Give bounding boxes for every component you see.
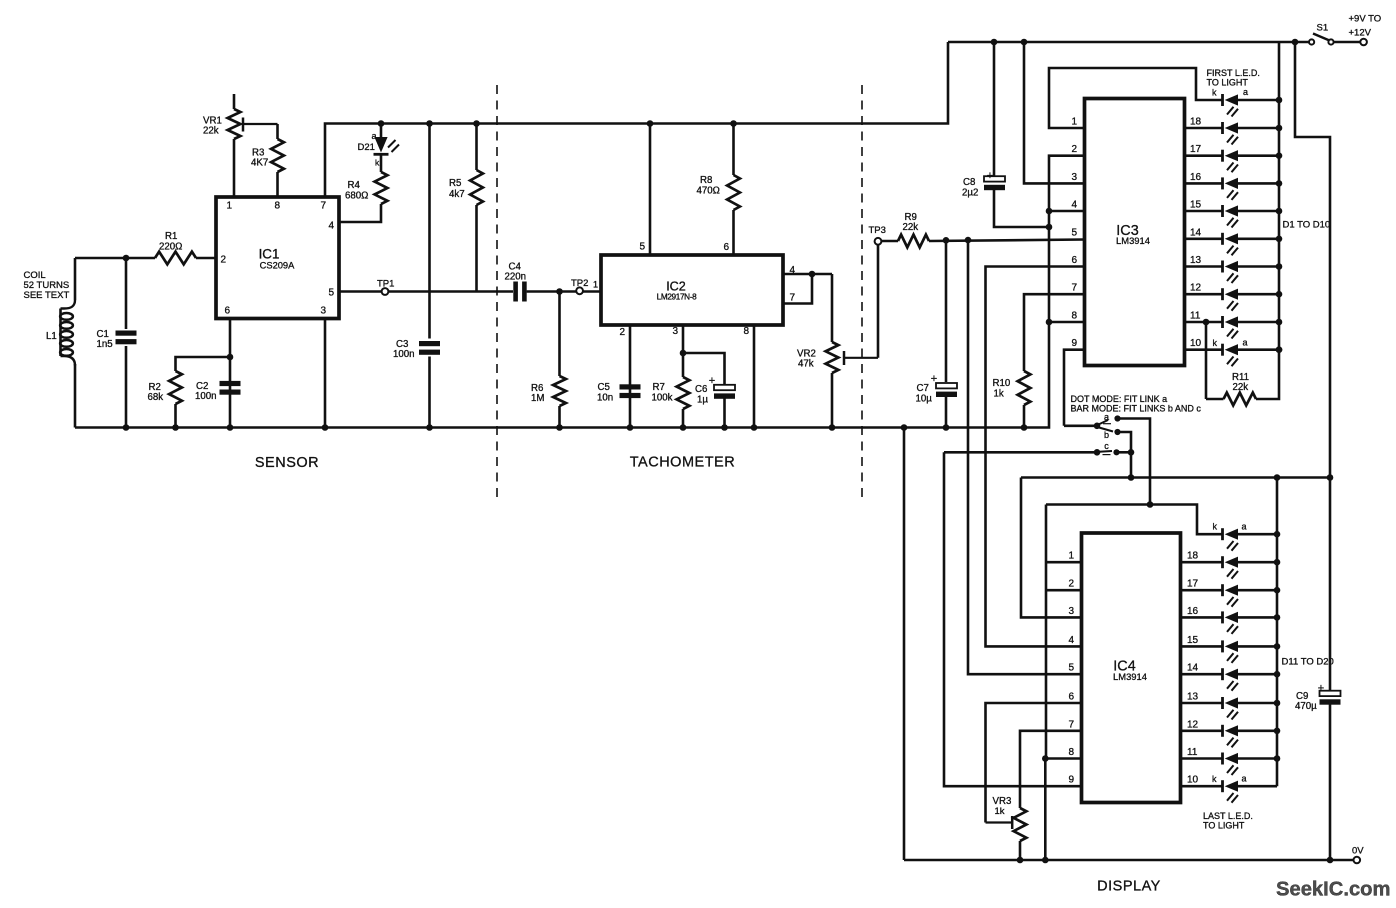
svg-text:10: 10 [1187,775,1199,786]
LED D3 [1185,150,1283,173]
svg-text:10: 10 [1190,338,1202,349]
svg-text:R8: R8 [700,175,712,186]
capacitor C6 1µ (electrolytic) [683,353,735,431]
svg-text:12: 12 [1190,283,1202,294]
svg-text:SEE TEXT: SEE TEXT [24,290,70,301]
svg-text:100k: 100k [652,393,673,404]
terminal 0V [1352,846,1364,864]
svg-text:18: 18 [1190,117,1202,128]
svg-text:1k: 1k [994,389,1004,400]
wire IC1 pin 3 to 0V rail [322,318,329,431]
LED D13 [1181,584,1281,607]
wire IC4 pin 6 to VR3 wiper [986,703,1082,823]
labels k/a for D1 [1212,87,1248,98]
svg-text:R4: R4 [348,180,361,191]
link c [1094,441,1120,456]
svg-text:TP1: TP1 [377,279,394,290]
IC2 pin numbers [619,242,795,339]
svg-text:220n: 220n [505,272,527,283]
svg-text:IC2: IC2 [666,280,686,294]
resistor R11 22k [1203,319,1283,406]
svg-text:1µ: 1µ [697,395,708,406]
svg-text:8: 8 [743,326,749,337]
section divider dashed line (left) [496,85,498,499]
svg-text:SeekIC.com: SeekIC.com [1276,879,1390,901]
wire +V line to IC4 anodes [1021,474,1333,481]
switch S1 [1309,23,1334,45]
svg-text:5: 5 [639,242,645,253]
svg-text:C7: C7 [917,383,929,394]
wire IC4 pin 1 box to first LED [1046,505,1223,535]
capacitor C1 1n5 [97,258,137,431]
capacitor C3 100n [393,124,440,431]
svg-text:3: 3 [672,326,678,337]
IC2 LM2917N-8 box [601,255,783,325]
svg-text:LAST L.E.D.: LAST L.E.D. [1203,811,1253,821]
svg-text:22k: 22k [203,126,219,137]
LED D11 [1223,528,1281,551]
LED D1 [1223,94,1283,117]
test point TP3 [869,225,886,245]
svg-text:+9V TO: +9V TO [1349,14,1382,25]
labels k/a for D10 [1213,338,1248,349]
svg-text:c: c [1104,441,1109,451]
svg-text:1k: 1k [995,806,1005,817]
svg-text:4: 4 [1071,200,1077,211]
svg-text:IC1: IC1 [259,247,280,262]
wire IC2 pin 8 to 0V rail [751,325,758,431]
LED D2 [1185,122,1283,145]
wire +V right-side feed [1295,42,1330,477]
svg-text:CS209A: CS209A [260,260,295,270]
label DISPLAY [1097,879,1161,895]
svg-text:16: 16 [1190,172,1202,183]
svg-text:TO LIGHT: TO LIGHT [1203,821,1245,831]
svg-text:a: a [1243,87,1248,97]
wire link b to +V net [1118,432,1132,452]
label TACHOMETER [630,455,735,471]
svg-text:10n: 10n [597,393,613,404]
svg-text:TACHOMETER: TACHOMETER [630,455,735,471]
LED D8 [1185,288,1283,311]
LED D16 [1181,668,1281,691]
wire link c to IC4 pin 9 [944,449,1134,786]
svg-text:9: 9 [1071,338,1077,349]
LED D7 [1185,261,1283,284]
svg-text:LM3914: LM3914 [1116,235,1150,246]
svg-text:R5: R5 [449,178,461,189]
wire IC3 pin 9 to link a [1064,350,1085,426]
svg-text:0V: 0V [1352,846,1364,857]
label FIRST LED TO LIGHT [1207,68,1260,88]
test point TP1 [377,279,394,295]
svg-text:1: 1 [226,201,232,212]
wire 0V bottom rail [75,426,1097,428]
labels k/a for D11 [1213,522,1247,532]
wire IC4 pin 7 to VR3 [1020,731,1082,808]
wire IC3 pin 1 to first LED (wire box) [1049,68,1223,128]
svg-text:6: 6 [224,306,230,317]
label SENSOR [255,455,319,471]
test point TP2 [571,278,598,294]
svg-text:7: 7 [1071,283,1077,294]
IC3 left pin numbers [1071,117,1077,350]
LED D19 [1181,753,1281,776]
IC4 right pin numbers [1187,551,1199,786]
wire C4 to IC2 pin 1 [560,290,602,293]
wire LED anode rail (D1-D10) [1278,42,1281,350]
resistor R6 1M [531,288,566,431]
svg-text:18: 18 [1187,551,1199,562]
LED D14 [1181,611,1281,634]
svg-text:a: a [1242,522,1247,532]
svg-text:TP3: TP3 [869,225,886,236]
resistor R10 1k [993,294,1085,431]
resistor R8 470Ω [697,124,740,256]
svg-text:7: 7 [790,293,796,304]
svg-text:8: 8 [1068,747,1074,758]
svg-text:a: a [1104,412,1109,422]
wire IC3 pin 6 to IC4 pin 4 [986,267,1085,647]
svg-text:5: 5 [328,288,334,299]
resistor R7 100k [652,325,690,431]
svg-text:11: 11 [1190,311,1201,322]
svg-text:470µ: 470µ [1295,701,1317,712]
svg-text:22k: 22k [1233,382,1249,393]
svg-text:8: 8 [1071,311,1077,322]
svg-text:12: 12 [1187,719,1199,730]
op-amp IC1 CS209A [216,197,339,319]
svg-text:L1: L1 [46,331,57,342]
svg-text:9: 9 [1068,775,1074,786]
label dot/bar mode note [1071,394,1202,414]
svg-text:17: 17 [1190,144,1202,155]
svg-text:+12V: +12V [1349,28,1372,39]
IC3 LM3914 box [1085,99,1185,366]
svg-text:470Ω: 470Ω [697,186,720,197]
svg-text:S1: S1 [1317,23,1329,34]
LED D10 [1185,344,1283,367]
svg-text:b: b [1104,430,1109,440]
svg-text:7: 7 [320,201,326,212]
svg-text:3: 3 [1071,172,1077,183]
capacitor C4 220n [505,262,560,302]
svg-text:5: 5 [1071,227,1077,238]
svg-text:2: 2 [1068,579,1074,590]
link a [1094,412,1121,429]
svg-text:13: 13 [1187,692,1199,703]
wire IC3 pin 3 to +V [1024,42,1085,183]
svg-text:a: a [372,131,377,141]
wire IC2 pin 5 to +V rail [649,124,652,256]
capacitor C5 10n [597,325,641,431]
wire VR2 wiper to TP3 [877,245,880,358]
terminal +9V to +12V [1334,14,1382,46]
svg-text:100n: 100n [195,391,217,402]
svg-text:R1: R1 [165,231,177,242]
potentiometer VR1 22k [203,94,278,197]
resistor R4 680Ω [339,172,387,222]
logo SeekIC.com [1276,879,1390,901]
inductor L1 (coil, 52 turns) [46,258,75,428]
svg-text:+: + [709,375,715,387]
svg-text:10µ: 10µ [916,394,933,405]
svg-text:C5: C5 [598,382,610,393]
svg-text:4: 4 [1068,635,1074,646]
svg-text:47k: 47k [798,359,814,370]
wire 0V riser (rail to bottom) [901,424,908,860]
svg-text:BAR MODE: FIT LINKS b AND c: BAR MODE: FIT LINKS b AND c [1071,404,1202,414]
IC1 pin numbers [220,201,334,317]
svg-text:+: + [1318,683,1324,695]
wire +V rail (sensor/tachometer top) [325,42,948,197]
svg-text:C8: C8 [963,177,975,188]
svg-text:15: 15 [1190,200,1202,211]
label: coil 52 turns see text [24,270,70,301]
svg-text:R7: R7 [653,382,665,393]
wire R9 to IC3 pin 5 (signal) [929,237,1085,244]
svg-text:+: + [987,170,993,182]
svg-text:k: k [1212,88,1217,98]
label D1 TO D10 [1283,220,1331,231]
svg-text:2: 2 [220,255,226,266]
svg-text:16: 16 [1187,606,1199,617]
svg-text:a: a [1243,338,1248,348]
svg-text:LM3914: LM3914 [1113,671,1147,682]
LED D4 [1185,177,1283,200]
svg-text:4k7: 4k7 [449,189,465,200]
wire IC1 pin 5 signal to C4 [339,290,513,293]
LED D12 [1181,556,1281,579]
IC3 ground bus (pins 2,4,8) [1046,156,1085,428]
svg-text:D1 TO D10: D1 TO D10 [1283,220,1331,231]
LED D15 [1181,640,1281,663]
svg-text:SENSOR: SENSOR [255,455,319,471]
resistor R3 4K7 [251,124,284,197]
LED D18 [1181,725,1281,748]
svg-text:D11 TO D20: D11 TO D20 [1282,657,1334,668]
wire coil top to IC1 pin 2 [75,255,155,262]
svg-text:100n: 100n [393,349,415,360]
wire link b/c riser to +V line [1128,452,1135,481]
svg-text:2: 2 [619,327,625,338]
wire +V to IC4 pin 3 [1021,478,1082,618]
svg-text:R10: R10 [993,378,1011,389]
svg-text:k: k [1213,338,1218,348]
LED D20 [1181,780,1278,803]
svg-text:DISPLAY: DISPLAY [1097,879,1161,895]
svg-text:15: 15 [1187,635,1199,646]
svg-text:2: 2 [1071,144,1077,155]
LED D21 [358,124,400,173]
svg-text:13: 13 [1190,255,1202,266]
label LAST LED TO LIGHT [1203,811,1253,831]
svg-text:2µ2: 2µ2 [962,188,978,199]
svg-text:4: 4 [328,221,334,232]
capacitor C9 470µ (electrolytic) [1295,478,1341,864]
resistor R1 220Ω [155,231,216,264]
svg-text:TO LIGHT: TO LIGHT [1207,78,1249,88]
link b [1099,428,1121,441]
svg-text:k: k [1212,774,1217,784]
svg-text:DOT MODE: FIT LINK a: DOT MODE: FIT LINK a [1071,394,1168,404]
svg-text:6: 6 [1068,692,1074,703]
svg-text:3: 3 [1068,606,1074,617]
IC4 LM3914 box [1082,533,1181,803]
svg-text:14: 14 [1187,663,1199,674]
svg-text:1: 1 [1071,117,1077,128]
svg-text:220Ω: 220Ω [159,242,182,253]
svg-text:D21: D21 [358,142,375,153]
svg-text:FIRST L.E.D.: FIRST L.E.D. [1207,68,1260,78]
resistor R9 22k [881,212,929,247]
LED D6 [1185,233,1283,256]
wire IC2 pins 4 and 7 junction [783,271,832,304]
svg-text:1: 1 [593,280,598,290]
resistor R2 68k [148,357,231,431]
svg-text:17: 17 [1187,579,1199,590]
svg-text:5: 5 [1068,663,1074,674]
IC4 left pin numbers [1068,551,1074,786]
svg-text:6: 6 [1071,255,1077,266]
svg-text:8: 8 [274,201,280,212]
svg-text:11: 11 [1187,747,1198,758]
svg-text:1n5: 1n5 [97,339,113,350]
svg-text:1: 1 [1068,551,1074,562]
svg-text:+: + [931,373,937,385]
wire 0V bottom rail (display) [904,859,1353,862]
potentiometer VR2 47k [797,274,878,431]
LED D17 [1181,697,1281,720]
capacitor C8 2µ2 (electrolytic) [962,42,1049,227]
wire +V top rail [948,39,1309,46]
wire R9 node to IC4 pin 5 [968,240,1082,674]
wire LED anode rail (D11-D20) [1276,478,1279,787]
svg-text:C6: C6 [695,384,707,395]
svg-text:22k: 22k [903,222,919,233]
LED D9 [1185,316,1283,339]
wire link a to IC4 pin 1 net [1118,419,1154,508]
LED D5 [1185,205,1283,228]
capacitor C7 10µ (electrolytic) [916,240,958,431]
potentiometer VR3 1k [986,796,1027,863]
svg-text:68k: 68k [148,392,164,403]
svg-text:k: k [1213,522,1218,532]
svg-text:3: 3 [320,306,326,317]
svg-text:LM2917N-8: LM2917N-8 [657,293,697,302]
label D11 TO D20 [1282,657,1334,668]
section divider dashed line (right) [861,85,863,499]
svg-text:7: 7 [1068,719,1074,730]
svg-text:TP2: TP2 [571,278,588,289]
capacitor C2 100n [195,318,241,431]
IC3 right pin numbers [1190,117,1202,350]
svg-text:4K7: 4K7 [251,158,268,169]
svg-text:680Ω: 680Ω [345,191,368,202]
svg-text:14: 14 [1190,227,1202,238]
resistor R5 4k7 [449,124,483,292]
svg-text:1M: 1M [531,393,544,404]
labels k/a for D20 [1212,774,1247,785]
IC4 ground bus (pins 1,2,8) [1042,505,1082,864]
svg-text:6: 6 [723,242,729,253]
svg-text:a: a [1242,774,1247,784]
